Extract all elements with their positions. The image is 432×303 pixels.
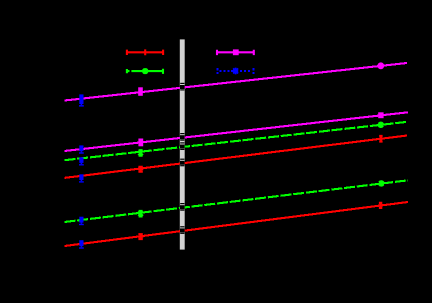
red plus point with errorbar on line 1 at x=140 (138, 167, 143, 172)
legend sample: green dashed errorbar with X marker (127, 68, 164, 74)
black point on magenta line 2 at gray band (180, 133, 185, 141)
red plus point with errorbar on line 1 at x=381 (379, 136, 383, 142)
magenta square point with errorbar on line 2 at x=140 (138, 139, 143, 147)
red line 2 (65, 202, 409, 246)
black point on green line 2 at gray band (180, 203, 185, 211)
green dashed line 2 (65, 180, 409, 222)
blue errorbar point on green line 1 (79, 157, 84, 165)
blue errorbar point on red line 1 (79, 174, 84, 182)
black point on red line 2 at gray band (180, 226, 185, 234)
magenta line 1 (top) (65, 63, 408, 101)
legend sample: blue dotted errorbar with star marker (216, 68, 254, 74)
gray vertical band (180, 39, 185, 249)
blue errorbar point on magenta line 1 (79, 94, 84, 106)
red plus point with errorbar on line 2 at x=381 (379, 203, 383, 209)
legend sample: blue star marker (233, 68, 238, 75)
magenta square point with errorbar on line 1 at x=140 (138, 87, 143, 96)
green X point with errorbar on line 1 at x=140 (138, 150, 143, 156)
blue errorbar point on magenta line 2 (79, 145, 84, 153)
green X point with errorbar on line 1 at x=381 (379, 122, 384, 128)
legend sample: red errorbar with plus marker (127, 49, 164, 55)
red line 1 (65, 136, 408, 178)
green X point with errorbar on line 2 at x=140 (138, 211, 143, 217)
legend sample: magenta errorbar with filled square marker (217, 49, 255, 55)
black point on magenta line 1 at gray band (180, 83, 185, 91)
black point on red line 1 at gray band (180, 159, 185, 167)
green X point with errorbar on line 2 at x=381 (379, 180, 384, 186)
magenta square point on line 2 at x=381 (378, 112, 383, 118)
blue errorbar point on green line 2 (79, 217, 84, 226)
black point on green line 1 at gray band (180, 142, 185, 150)
magenta line 2 (65, 112, 409, 151)
blue errorbar point on red line 2 (79, 240, 84, 249)
red plus point with errorbar on line 2 at x=140 (138, 234, 143, 239)
magenta filled circle point on line 1 at x=381 (377, 62, 384, 69)
green dashed line 1 (65, 122, 407, 160)
